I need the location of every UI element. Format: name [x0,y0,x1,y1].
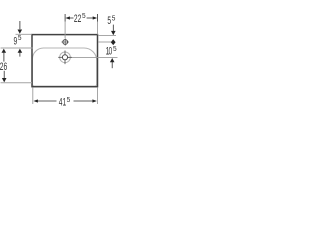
washbasin outer rim (top view rectangle) [32,35,98,87]
tap hole crosshair [62,41,69,43]
svg-text:5: 5 [112,16,116,23]
svg-text:5: 5 [18,35,22,42]
svg-text:5: 5 [113,46,117,53]
dim 41.5 line left arrow [33,99,38,102]
drain inner circle [62,55,67,60]
dim 26 arrow down to lower extension [3,71,5,78]
dim 41.5 left extension line [32,87,34,104]
svg-text:22: 22 [74,13,81,25]
drain leader line to right [65,56,118,58]
dim 9.5 up arrow to bowl extension [18,49,23,53]
tap hole extension line up to dim line [64,14,66,22]
dim 41.5 line right arrow [92,99,97,102]
dim 22.5 line right arrow [93,16,98,19]
svg-text:0: 0 [109,45,113,57]
diamond double arrow on tap leader [111,39,116,45]
drain outer circle [60,52,71,63]
svg-text:5: 5 [67,97,71,104]
bowl top edge extension left [1,47,33,49]
dim 10.5 up arrow to drain leader [110,58,115,62]
svg-text:5: 5 [107,15,111,27]
svg-text:5: 5 [82,13,86,20]
tap hole leader line right [98,41,111,43]
svg-text:9: 9 [14,35,18,47]
dim 22.5 line left arrow [65,16,70,19]
dim 9.5 arrow down to rim top extension left [19,21,21,29]
drain crosshair [58,56,72,58]
rim top edge extension right [98,34,116,36]
dim 41.5 right extension line [97,87,99,104]
svg-text:41: 41 [59,96,66,108]
lower extension line left [1,82,33,84]
basin bowl inner outline [32,48,96,86]
dim 5.5 arrow down to rim top extension [112,25,114,31]
dim 26 up arrow to bowl extension [2,49,7,53]
tap hole circle [63,40,68,45]
dim 22.5 right extension line [97,14,99,22]
rim top edge extension left [16,33,32,35]
svg-text:26: 26 [0,60,7,72]
